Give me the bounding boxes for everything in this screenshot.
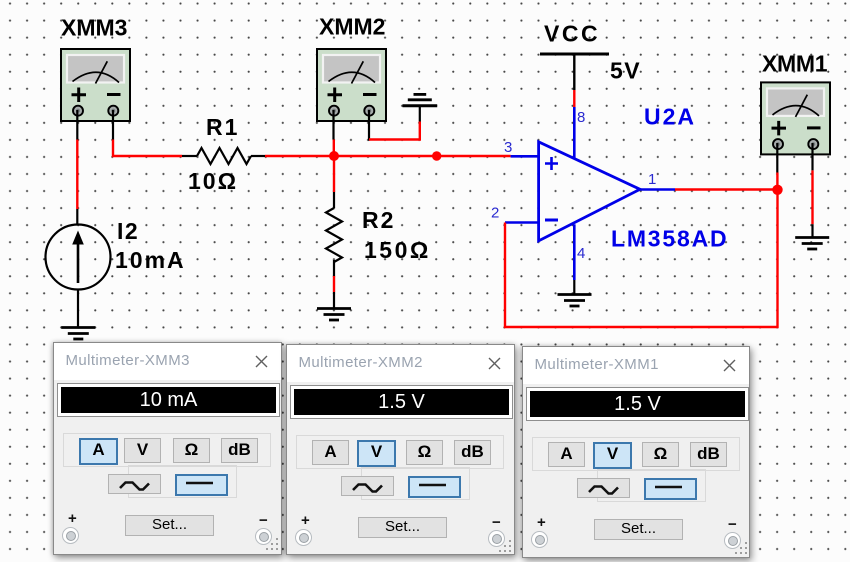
wire R2 to ground red <box>333 276 335 292</box>
wire XMM3 plus to I2 (black lower) <box>76 209 78 225</box>
svg-text:VCC: VCC <box>544 21 600 47</box>
wire XMM1 minus red <box>811 170 813 224</box>
label XMM2 <box>319 14 385 40</box>
label VCC <box>544 21 600 47</box>
svg-text:2: 2 <box>491 205 499 222</box>
svg-text:5V: 5V <box>610 58 641 84</box>
wire output stub blue <box>640 188 675 191</box>
value 5V <box>610 58 641 84</box>
svg-text:10Ω: 10Ω <box>188 168 238 194</box>
XMM3 set button <box>125 515 214 536</box>
svg-text:U2A: U2A <box>644 104 696 130</box>
label XMM3 <box>61 15 127 41</box>
XMM1 DC button <box>644 478 697 500</box>
wire XMM3 minus vertical black <box>112 110 114 140</box>
wire pin4 blue <box>573 224 576 280</box>
wire XMM2 plus black <box>332 110 334 140</box>
svg-text:150Ω: 150Ω <box>364 237 431 263</box>
junction node mid <box>432 151 441 160</box>
ground op-amp pin4 <box>558 295 592 307</box>
svg-text:R1: R1 <box>206 114 239 140</box>
XMM1 panel terminals <box>531 531 548 548</box>
wire pin8 blue <box>573 107 576 159</box>
junction node output <box>772 185 782 195</box>
pin number 3 <box>504 139 512 156</box>
pin number 4 <box>577 245 585 262</box>
wire pin3 stub blue <box>511 155 539 158</box>
label XMM1 <box>762 51 828 77</box>
svg-text:I2: I2 <box>117 218 139 244</box>
multimeter XMM2 <box>317 49 386 121</box>
pin number 8 <box>577 109 585 126</box>
VCC power symbol <box>540 54 609 90</box>
resistor R2 <box>326 192 342 276</box>
pin number 1 <box>648 171 656 188</box>
label R2 <box>362 207 395 233</box>
wire junction to R2 red <box>333 156 335 192</box>
ground I2 <box>61 328 95 340</box>
wire XMM1 plus black <box>776 143 778 173</box>
label I2 <box>117 218 139 244</box>
wire XMM1 minus ground stub black <box>811 224 813 237</box>
XMM2 set button <box>358 517 447 538</box>
value 150 Ohm <box>364 237 431 263</box>
XMM1 reading display <box>526 387 749 421</box>
wire junction to op-amp pin3 red <box>334 155 511 157</box>
XMM3 reading display <box>57 383 280 417</box>
wire R2 ground stub black <box>333 292 335 308</box>
wire XMM2 plus red to junction <box>333 140 335 157</box>
value 10mA <box>115 247 186 273</box>
XMM3 DC button <box>175 474 228 496</box>
ground R2 <box>317 309 351 321</box>
resistor R1 <box>182 148 265 164</box>
multimeter dialog XMM3 <box>53 342 282 555</box>
XMM1 AC button <box>577 478 630 498</box>
svg-text:XMM1: XMM1 <box>762 51 828 77</box>
wire XMM2 minus black <box>368 110 370 141</box>
wire XMM2 minus elbow red <box>369 122 420 140</box>
multimeter dialog XMM1 <box>522 346 750 558</box>
XMM3 mode buttons <box>79 438 118 465</box>
svg-text:8: 8 <box>577 109 585 126</box>
XMM2 AC button <box>341 476 394 496</box>
wire feedback loop red <box>505 190 778 328</box>
label LM358AD <box>611 226 728 252</box>
XMM1 set button <box>594 519 683 540</box>
multimeter XMM1 <box>761 82 830 154</box>
svg-text:1: 1 <box>648 171 656 188</box>
wire XMM3 plus to I2 (red middle) <box>76 140 78 210</box>
XMM2 mode buttons <box>312 440 349 465</box>
op-amp U2A <box>539 142 640 241</box>
wire output to junction red <box>675 188 778 190</box>
wire XMM3 plus to I2 (black upper) <box>76 110 78 140</box>
wire to inverted ground black <box>419 106 421 122</box>
svg-text:4: 4 <box>577 245 585 262</box>
svg-text:XMM3: XMM3 <box>61 15 127 41</box>
svg-text:XMM2: XMM2 <box>319 14 385 40</box>
multimeter dialog XMM2 <box>286 344 515 555</box>
wire VCC red segment <box>573 90 575 107</box>
value 10 Ohm <box>188 168 238 194</box>
label R1 <box>206 114 239 140</box>
multimeter XMM3 <box>61 49 130 121</box>
wire XMM1 minus black upper <box>811 143 813 170</box>
wire R1 to junction red <box>265 155 334 157</box>
XMM3 panel terminals <box>62 527 79 544</box>
svg-text:3: 3 <box>504 139 512 156</box>
svg-text:R2: R2 <box>362 207 395 233</box>
XMM2 panel terminals <box>295 529 312 546</box>
pin number 2 <box>491 205 499 222</box>
XMM2 DC button <box>408 476 461 498</box>
XMM3 AC button <box>108 474 161 494</box>
wire pin2 stub blue <box>505 221 539 224</box>
junction node main <box>329 151 339 161</box>
XMM2 reading display <box>290 385 513 419</box>
ground inverted (XMM2) <box>403 94 438 105</box>
label U2A <box>644 104 696 130</box>
wire XMM1 plus red <box>776 173 778 190</box>
wire I2 to ground black <box>77 290 79 328</box>
ground XMM1 <box>795 238 829 250</box>
svg-text:10mA: 10mA <box>115 247 186 273</box>
wire XMM3 minus elbow red to R1 <box>113 140 182 157</box>
wire pin4 ground stub black <box>573 280 575 294</box>
current source I2 <box>46 225 111 290</box>
svg-text:LM358AD: LM358AD <box>611 226 728 252</box>
XMM1 mode buttons <box>548 442 585 467</box>
